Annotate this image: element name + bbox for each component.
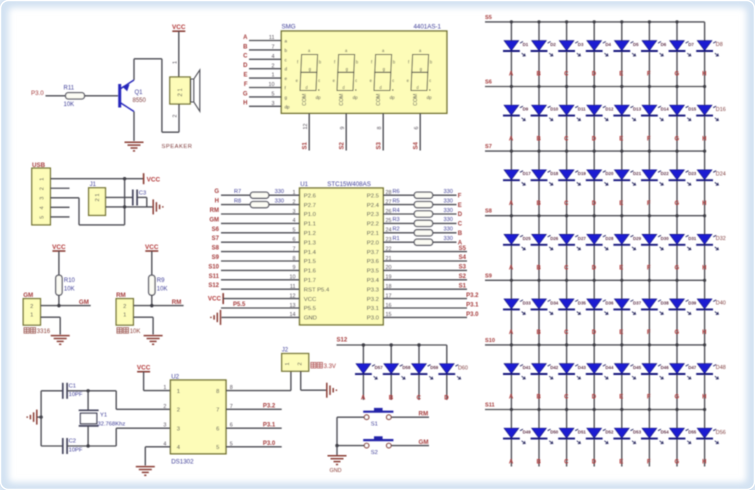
svg-text:C: C	[564, 201, 569, 207]
svg-text:VCC: VCC	[172, 24, 186, 31]
svg-text:D48: D48	[716, 365, 726, 371]
wire COM pin 8 of SMG	[382, 113, 384, 150]
wire U2 pin 6 node P3.1	[226, 427, 282, 429]
junction	[537, 343, 540, 346]
svg-text:B: B	[537, 395, 542, 401]
wire R4 to node D	[433, 213, 457, 215]
junction	[620, 343, 623, 346]
wire U2 pin 4 to ground	[145, 446, 170, 448]
LED D49	[504, 428, 519, 438]
speaker cone	[191, 70, 200, 111]
svg-text:S12: S12	[208, 283, 219, 289]
wire S5 row bus	[485, 21, 705, 23]
svg-text:VCC: VCC	[147, 176, 161, 183]
svg-text:S1: S1	[371, 422, 378, 428]
LED D31	[670, 234, 685, 244]
wire RM pin 2	[133, 305, 183, 307]
wire GM pin 1	[41, 316, 61, 318]
power VCC USB	[143, 173, 145, 184]
LED D22	[642, 170, 657, 180]
svg-text:STC15W408AS: STC15W408AS	[327, 181, 371, 188]
junction	[510, 279, 513, 282]
wire pin 24 to R2	[383, 232, 414, 234]
svg-text:P3.0: P3.0	[263, 441, 276, 447]
wire cap column	[40, 391, 42, 446]
svg-text:F: F	[244, 82, 248, 88]
svg-text:S10: S10	[485, 338, 495, 344]
junction	[565, 408, 568, 411]
LED D35	[559, 299, 574, 309]
LED D36	[587, 299, 602, 309]
LED D1	[504, 41, 519, 51]
svg-text:8: 8	[216, 389, 219, 395]
svg-text:C: C	[564, 395, 569, 401]
svg-text:5: 5	[40, 216, 46, 219]
junction	[565, 214, 568, 217]
svg-text:D25: D25	[523, 236, 532, 241]
junction	[537, 214, 540, 217]
LED D4	[587, 41, 602, 51]
svg-text:D32: D32	[716, 236, 726, 242]
LED D29	[615, 234, 630, 244]
svg-text:G: G	[243, 91, 248, 97]
svg-text:330: 330	[444, 227, 453, 233]
LED D60	[440, 364, 455, 374]
wire pin 22 to node S5	[383, 251, 467, 253]
svg-text:P3.4: P3.4	[367, 278, 380, 284]
svg-text:B: B	[537, 136, 542, 142]
svg-text:J2: J2	[282, 347, 289, 353]
wire pin 17 to node P3.2	[383, 298, 467, 300]
svg-text:1: 1	[285, 362, 291, 365]
svg-text:330: 330	[444, 189, 453, 195]
svg-text:D46: D46	[661, 365, 670, 370]
svg-text:D39: D39	[688, 300, 697, 305]
svg-text:P3.5: P3.5	[367, 269, 380, 275]
svg-text:d: d	[285, 67, 288, 72]
svg-text:G: G	[675, 266, 680, 272]
svg-text:P2.0: P2.0	[367, 240, 380, 246]
svg-text:P1.3: P1.3	[304, 240, 317, 246]
wire pin 27 to R5	[383, 204, 414, 206]
junction	[620, 85, 623, 88]
junction	[510, 85, 513, 88]
wire pin 15 to node P3.0	[383, 316, 467, 318]
wire to C1	[41, 390, 62, 392]
svg-text:S2: S2	[371, 450, 378, 456]
svg-text:D45: D45	[633, 365, 642, 370]
junction	[565, 85, 568, 88]
wire COM pin 9 of SMG	[345, 113, 347, 150]
svg-text:J1: J1	[90, 182, 97, 188]
junction	[675, 214, 678, 217]
junction	[537, 408, 540, 411]
svg-text:P3.2: P3.2	[466, 293, 479, 299]
LED D57	[356, 364, 371, 374]
label battery 3.3V	[311, 362, 316, 368]
svg-text:3.3V: 3.3V	[324, 364, 336, 370]
svg-text:D40: D40	[716, 301, 726, 307]
wire R3 to node C	[433, 222, 457, 224]
wire USB pin 5 stub	[50, 216, 69, 218]
svg-text:RM: RM	[172, 299, 182, 306]
junction	[620, 279, 623, 282]
LED D21	[615, 170, 630, 180]
svg-text:GM: GM	[79, 299, 89, 306]
LED D40	[697, 299, 712, 309]
svg-text:S7: S7	[212, 236, 220, 242]
svg-text:H: H	[702, 330, 706, 336]
svg-text:2: 2	[298, 362, 304, 365]
svg-text:C: C	[564, 330, 569, 336]
resistor R5 330	[414, 202, 433, 208]
svg-text:10PF: 10PF	[69, 447, 83, 453]
junction	[593, 85, 596, 88]
svg-text:D11: D11	[578, 107, 586, 112]
svg-text:S4: S4	[414, 141, 420, 149]
svg-text:10K: 10K	[64, 102, 75, 108]
svg-text:S1: S1	[303, 141, 309, 149]
svg-text:D30: D30	[661, 236, 670, 241]
svg-text:D: D	[592, 72, 597, 78]
svg-text:VCC: VCC	[137, 365, 151, 372]
wire S12 bus	[337, 344, 447, 346]
svg-text:P3.1: P3.1	[367, 306, 379, 312]
wire U2 pin 8 to J2	[226, 390, 291, 392]
ground USB	[152, 199, 154, 214]
svg-text:D17: D17	[523, 171, 532, 176]
wire USB pin 1 to VCC	[50, 178, 143, 180]
LED D16	[697, 105, 712, 115]
junction	[593, 150, 596, 153]
junction	[39, 415, 42, 418]
svg-text:D55: D55	[688, 430, 697, 435]
junction	[510, 150, 513, 153]
svg-text:S3: S3	[377, 141, 383, 149]
LED D14	[642, 105, 657, 115]
LED D38	[642, 299, 657, 309]
svg-text:4: 4	[40, 206, 46, 209]
wire S8 row bus	[485, 215, 705, 217]
svg-text:R10: R10	[64, 278, 76, 284]
junction	[123, 177, 126, 180]
wire pin 13	[221, 307, 300, 309]
junction	[510, 408, 513, 411]
junction	[648, 85, 651, 88]
svg-text:S10: S10	[208, 264, 219, 270]
wire RM pin 1	[133, 316, 153, 318]
svg-text:F: F	[458, 193, 462, 199]
svg-text:H: H	[702, 395, 706, 401]
svg-text:D52: D52	[605, 430, 614, 435]
svg-text:3: 3	[163, 423, 166, 429]
junction	[335, 444, 338, 447]
resistor R6 330	[414, 192, 433, 198]
svg-text:B: B	[243, 44, 248, 50]
svg-text:S6: S6	[212, 227, 220, 233]
wire J1 pin 1	[106, 206, 153, 208]
wire to GND	[336, 446, 338, 455]
wire pin 25 to R3	[383, 222, 414, 224]
svg-text:S2: S2	[459, 274, 467, 280]
switch S1	[374, 408, 383, 412]
junction	[648, 150, 651, 153]
svg-text:D5: D5	[633, 42, 639, 47]
svg-text:R5: R5	[393, 198, 400, 204]
svg-text:D31: D31	[688, 236, 697, 241]
svg-text:D15: D15	[688, 107, 697, 112]
junction	[123, 205, 126, 208]
wire S7 to pin 6	[221, 241, 300, 243]
svg-text:B: B	[458, 231, 463, 237]
svg-text:2 1: 2 1	[95, 193, 101, 201]
svg-text:E: E	[619, 459, 623, 465]
svg-text:330: 330	[444, 217, 453, 223]
wire pin 20 to node S3	[383, 269, 467, 271]
wire matrix column D	[593, 22, 595, 467]
junction	[593, 343, 596, 346]
svg-text:c: c	[318, 78, 320, 83]
LED D52	[587, 428, 602, 438]
svg-text:G: G	[675, 136, 680, 142]
svg-text:7: 7	[216, 408, 219, 414]
svg-text:F: F	[647, 266, 651, 272]
svg-text:4401AS-1: 4401AS-1	[413, 23, 441, 30]
svg-text:D: D	[243, 63, 248, 69]
svg-text:A: A	[509, 395, 514, 401]
value label GM	[24, 328, 29, 334]
capacitor C3	[132, 190, 134, 206]
resistor R2 330	[414, 230, 433, 236]
wire COM pin 12 of SMG	[308, 113, 310, 150]
svg-text:D34: D34	[550, 300, 559, 305]
svg-text:A: A	[509, 72, 514, 78]
junction	[648, 214, 651, 217]
LED D12	[587, 105, 602, 115]
junction	[703, 279, 706, 282]
svg-text:3: 3	[40, 197, 46, 200]
LED D6	[642, 41, 657, 51]
value label RM	[117, 328, 122, 334]
svg-text:R1: R1	[393, 236, 400, 242]
junction	[703, 343, 706, 346]
svg-text:R3: R3	[393, 217, 400, 223]
svg-text:D13: D13	[633, 107, 642, 112]
svg-text:D10: D10	[550, 107, 559, 112]
svg-text:VCC: VCC	[208, 296, 222, 303]
svg-text:C: C	[564, 72, 569, 78]
svg-text:S1: S1	[459, 283, 467, 289]
junction	[593, 279, 596, 282]
svg-text:RST P5.4: RST P5.4	[304, 287, 330, 293]
svg-text:SPEAKER: SPEAKER	[162, 144, 193, 150]
svg-text:1: 1	[40, 178, 46, 181]
wire USB pin 4 stub	[50, 206, 69, 208]
svg-text:H: H	[702, 266, 706, 272]
ground GND switches	[328, 455, 347, 457]
junction	[362, 343, 365, 346]
capacitor C2 10PF	[62, 438, 64, 454]
wire R8 to pin 2	[269, 204, 300, 206]
wire S9 to pin 8	[221, 260, 300, 262]
wire pin 28 to R6	[383, 194, 414, 196]
LED D45	[615, 364, 630, 374]
wire J1 pin 2 to C3	[106, 196, 133, 198]
svg-text:D3: D3	[578, 42, 584, 47]
wire pin 21 to node S4	[383, 260, 467, 262]
speaker connector LS1	[170, 77, 190, 104]
wire matrix column E	[621, 22, 623, 467]
wire S12 column D	[446, 345, 448, 400]
LED D37	[615, 299, 630, 309]
wire S2 left	[337, 445, 364, 447]
svg-text:B: B	[537, 330, 542, 336]
svg-text:D35: D35	[578, 300, 587, 305]
LED D58	[384, 364, 399, 374]
wire R7 to pin 1	[269, 194, 300, 196]
junction	[675, 20, 678, 23]
junction	[565, 343, 568, 346]
svg-text:D: D	[458, 212, 463, 218]
capacitor C1 10PF	[62, 383, 64, 399]
svg-text:D12: D12	[605, 107, 614, 112]
junction	[537, 20, 540, 23]
svg-text:D: D	[592, 201, 597, 207]
svg-text:3316: 3316	[37, 329, 51, 335]
junction	[620, 150, 623, 153]
wire S6 row bus	[485, 86, 705, 88]
seven-segment digit 2	[337, 55, 355, 91]
LED D44	[587, 364, 602, 374]
svg-text:S7: S7	[485, 144, 492, 150]
svg-text:D6: D6	[661, 42, 667, 47]
svg-text:P1.0: P1.0	[304, 212, 317, 218]
svg-text:D: D	[592, 395, 597, 401]
wire matrix column B	[538, 22, 540, 467]
svg-text:P1.1: P1.1	[304, 222, 316, 228]
svg-text:S6: S6	[485, 80, 492, 86]
svg-text:A: A	[509, 266, 514, 272]
svg-text:D43: D43	[578, 365, 587, 370]
wire VCC to R9	[151, 251, 153, 275]
svg-text:D7: D7	[688, 42, 694, 47]
svg-text:D21: D21	[633, 171, 642, 176]
svg-text:D58: D58	[402, 365, 411, 370]
svg-text:c: c	[355, 78, 357, 83]
svg-text:D28: D28	[605, 236, 614, 241]
svg-text:C: C	[564, 266, 569, 272]
svg-text:g: g	[285, 95, 288, 100]
svg-text:P3.0: P3.0	[466, 312, 479, 318]
wire USB pin 3 route	[50, 197, 79, 199]
wire VCC to R10	[58, 251, 60, 275]
wire S11 to pin 10	[221, 279, 300, 281]
svg-text:F: F	[647, 459, 651, 465]
wire pin 16 to node P3.1	[383, 307, 467, 309]
svg-text:R11: R11	[64, 86, 75, 92]
svg-text:1: 1	[30, 312, 33, 318]
svg-text:C: C	[243, 54, 248, 60]
svg-text:E: E	[619, 395, 623, 401]
svg-text:E: E	[619, 72, 623, 78]
svg-text:Q1: Q1	[135, 90, 144, 96]
svg-text:D41: D41	[523, 365, 532, 370]
ground J2	[326, 383, 328, 398]
svg-text:2: 2	[123, 304, 126, 310]
svg-text:D: D	[592, 136, 597, 142]
wire Q1 collector down	[133, 112, 135, 142]
junction	[390, 343, 393, 346]
svg-text:H: H	[702, 72, 706, 78]
wire VCC to speaker pin 1	[178, 31, 180, 77]
svg-text:c: c	[392, 78, 394, 83]
junction	[675, 408, 678, 411]
svg-text:S9: S9	[485, 273, 492, 279]
svg-text:S8: S8	[485, 209, 492, 215]
svg-text:A: A	[509, 330, 514, 336]
svg-text:D47: D47	[688, 365, 697, 370]
wire P3.0 to R11	[46, 95, 66, 97]
ground GM	[51, 335, 70, 337]
svg-text:e: e	[285, 76, 288, 81]
LED D30	[642, 234, 657, 244]
svg-text:H: H	[702, 459, 706, 465]
svg-text:2: 2	[40, 187, 46, 190]
LED D41	[504, 364, 519, 374]
svg-text:D1: D1	[523, 42, 529, 47]
LED D46	[642, 364, 657, 374]
wire speaker pin 2	[178, 104, 180, 132]
svg-text:B: B	[537, 201, 542, 207]
wire U2 pin 7 node P3.2	[226, 408, 282, 410]
LED D15	[670, 105, 685, 115]
junction	[417, 343, 420, 346]
wire G to R7	[221, 194, 250, 196]
svg-text:F: F	[647, 72, 651, 78]
junction	[510, 214, 513, 217]
wire J2 pin 2 to ground	[300, 371, 302, 390]
LED D11	[559, 105, 574, 115]
junction	[620, 214, 623, 217]
svg-text:D4: D4	[605, 42, 611, 47]
wire USB pin 2 stub	[50, 187, 69, 189]
junction	[675, 279, 678, 282]
svg-text:F: F	[647, 201, 651, 207]
svg-text:S8: S8	[212, 246, 220, 252]
junction	[675, 150, 678, 153]
LED D33	[504, 299, 519, 309]
svg-text:P3.0: P3.0	[367, 316, 380, 322]
wire S10 to pin 9	[221, 269, 300, 271]
svg-text:D42: D42	[550, 365, 559, 370]
wire GM pin 2	[41, 305, 91, 307]
LED D20	[587, 170, 602, 180]
svg-text:D49: D49	[523, 430, 532, 435]
svg-text:12: 12	[303, 124, 309, 130]
LED D42	[532, 364, 547, 374]
wire S10 row bus	[485, 344, 705, 346]
svg-text:D37: D37	[633, 300, 642, 305]
wire R5 to node E	[433, 204, 457, 206]
svg-text:D27: D27	[578, 236, 587, 241]
svg-text:D53: D53	[633, 430, 642, 435]
LED D53	[615, 428, 630, 438]
wire pin 26 to R4	[383, 213, 414, 215]
svg-text:2 1: 2 1	[178, 87, 184, 96]
svg-text:B: B	[389, 395, 394, 402]
wire R6 to node F	[433, 194, 457, 196]
svg-text:2: 2	[163, 404, 166, 410]
